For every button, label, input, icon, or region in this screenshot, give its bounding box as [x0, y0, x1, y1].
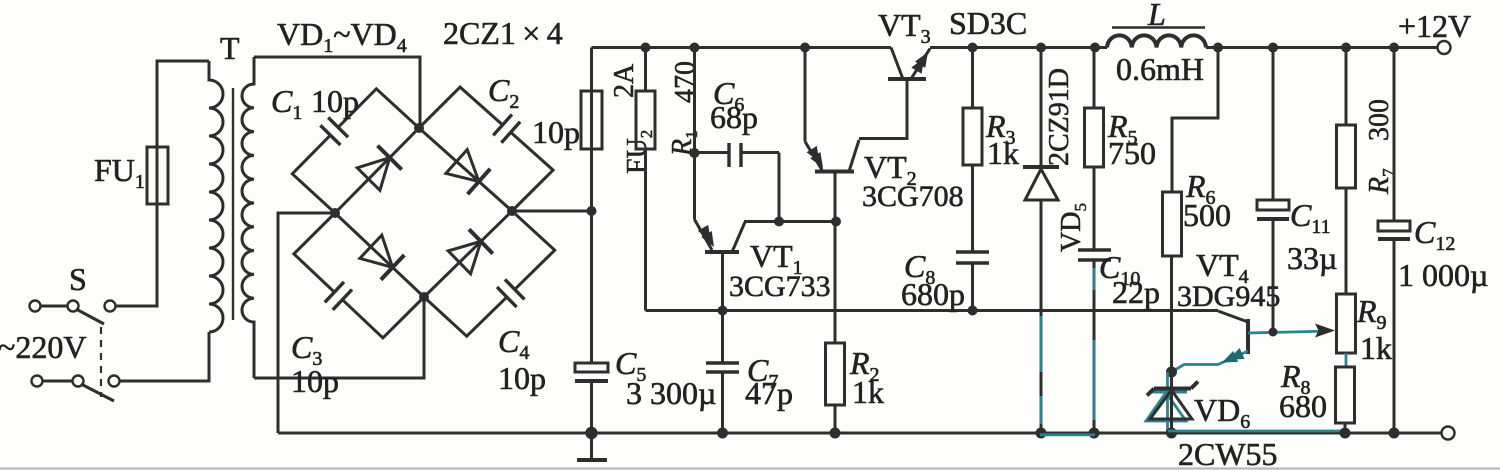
transformer T secondary winding	[242, 57, 254, 378]
capacitor C10	[1078, 250, 1111, 433]
node C6 right junction	[774, 217, 784, 227]
svg-text:33µ: 33µ	[1287, 240, 1337, 276]
svg-text:1k: 1k	[852, 374, 884, 410]
capacitor C8	[956, 252, 989, 311]
wire teal overtrace bottom	[1168, 430, 1346, 433]
svg-text:1 000µ: 1 000µ	[1398, 257, 1488, 293]
wire secondary bottom to bridge bottom node	[254, 297, 424, 378]
top rail wire segment B	[930, 46, 1107, 49]
node VT1 emitter top	[690, 43, 700, 53]
transistor VT4	[1172, 311, 1336, 372]
svg-text:+12V: +12V	[1398, 8, 1471, 44]
output terminal bottom	[1442, 427, 1455, 440]
diode VD4	[448, 229, 493, 273]
svg-text:3CG733: 3CG733	[729, 270, 831, 303]
svg-text:10p: 10p	[532, 114, 580, 150]
potentiometer R9	[1337, 294, 1356, 367]
wire L right down to R6	[1172, 48, 1218, 193]
diode VD1	[357, 146, 402, 191]
node C7 ground	[717, 428, 728, 439]
capacitor C11 (electrolytic)	[1257, 48, 1289, 333]
svg-text:47p: 47p	[745, 375, 793, 411]
svg-text:22p: 22p	[1112, 274, 1160, 310]
wire bridge edge left-top	[335, 128, 419, 213]
transformer T core	[232, 88, 234, 320]
wire VT2 base to R2	[834, 222, 837, 344]
diode VD2	[446, 150, 490, 195]
diode VD6 zener (teal shadow)	[1146, 372, 1187, 433]
svg-text:VD1~VD4: VD1~VD4	[277, 16, 407, 57]
bridge top node	[414, 123, 424, 133]
svg-text:680p: 680p	[901, 276, 965, 312]
wire bridge edge top-right	[419, 128, 512, 211]
resistor R2	[826, 343, 845, 433]
capacitor C3	[294, 213, 424, 338]
node L right	[1213, 43, 1223, 53]
switch S blade bottom	[81, 384, 114, 401]
node C11 top	[1268, 43, 1278, 53]
switch S pole2 fixed contact	[109, 376, 120, 387]
input terminal bottom	[32, 376, 43, 387]
wire secondary top to bridge top node	[254, 57, 420, 128]
svg-text:2CZ1 × 4: 2CZ1 × 4	[443, 15, 563, 51]
output terminal +12V	[1438, 41, 1451, 54]
wire FU1 to transformer primary top	[157, 61, 209, 147]
resistor R6	[1163, 192, 1182, 372]
svg-text:2CZ91D: 2CZ91D	[1044, 68, 1075, 166]
transformer T primary winding	[209, 61, 223, 332]
resistor R1	[636, 48, 655, 311]
resistor R7	[1337, 48, 1356, 295]
node junction C5 ground	[585, 427, 597, 439]
node VT2 emitter top	[800, 43, 810, 53]
svg-text:470: 470	[670, 61, 701, 103]
svg-text:SD3C: SD3C	[949, 5, 1027, 41]
svg-text:1k: 1k	[1360, 330, 1392, 366]
node VD6 ground	[1166, 428, 1177, 439]
switch S mechanical link (dashed)	[100, 327, 102, 397]
svg-text:68p: 68p	[710, 99, 758, 135]
wire bridge edge bottom-right	[424, 211, 512, 297]
svg-text:T: T	[220, 30, 240, 66]
capacitor C2	[419, 87, 553, 211]
fuse FU2	[581, 91, 602, 149]
node R7 top	[1341, 43, 1351, 53]
wire teal accent C10 lower lead	[1093, 268, 1096, 290]
svg-text:10p: 10p	[311, 83, 359, 119]
transistor VT1 emitter wire	[693, 48, 696, 220]
bridge bottom node	[419, 292, 429, 302]
switch S blade top	[76, 309, 104, 324]
svg-text:3 300µ: 3 300µ	[626, 375, 716, 411]
node R1 top	[641, 43, 651, 53]
diode VD6 zener	[1147, 372, 1198, 433]
transistor VT1	[695, 220, 746, 311]
fuse FU1	[147, 147, 168, 204]
diode VD3	[360, 235, 405, 280]
capacitor C7	[706, 311, 739, 434]
svg-text:10p: 10p	[291, 363, 339, 399]
bottom rail wire	[278, 432, 1442, 435]
capacitor C12 (electrolytic)	[1378, 48, 1410, 434]
node C8 bottom junction	[968, 306, 978, 316]
transistor VT3	[888, 48, 930, 80]
wire base rail y310	[646, 309, 1219, 312]
transistor VT2 emitter wire	[804, 48, 807, 142]
svg-text:750: 750	[1108, 135, 1156, 171]
wire bridge edge left-bottom	[335, 213, 424, 297]
svg-text:3CG708: 3CG708	[862, 180, 964, 213]
node VT4 emitter / VD6 top	[1166, 367, 1177, 378]
svg-text:~220V: ~220V	[0, 329, 86, 365]
switch S pole1 fixed contact	[105, 301, 116, 312]
fuse FU2 lead through	[590, 48, 593, 212]
wire input to pivot top	[41, 305, 68, 308]
bridge right node	[507, 206, 517, 216]
input terminal top	[30, 301, 41, 312]
capacitor C1	[292, 89, 419, 213]
node junction at FU2 bottom / C5 top	[587, 206, 597, 216]
wire teal accent bottom rail left	[1040, 433, 1095, 436]
node C12 ground	[1389, 428, 1400, 439]
resistor R3	[963, 48, 982, 253]
resistor R8	[1336, 367, 1355, 433]
svg-text:0.6mH: 0.6mH	[1116, 51, 1204, 87]
diode VD5	[1023, 48, 1059, 434]
resistor R5	[1085, 48, 1104, 251]
svg-text:500: 500	[1183, 197, 1231, 233]
svg-text:S: S	[69, 261, 87, 297]
wire bridge left node to ground rail	[278, 213, 335, 433]
wire teal accent VD5 lower lead	[1040, 316, 1043, 372]
top rail wire segment A	[592, 46, 892, 49]
wire input to pivot bottom	[43, 380, 73, 383]
switch S pole2 pivot	[73, 376, 84, 387]
svg-text:10p: 10p	[498, 360, 546, 396]
node C6 left junction	[690, 148, 700, 158]
capacitor C5 (electrolytic)	[575, 211, 608, 433]
switch S pole1 pivot	[68, 301, 79, 312]
node R2 ground	[830, 428, 841, 439]
top rail wire segment C	[1206, 46, 1438, 49]
svg-text:300: 300	[1364, 99, 1395, 141]
node C12 top	[1389, 43, 1399, 53]
node VT1 collector / VT2 base junction	[831, 217, 841, 227]
svg-text:1k: 1k	[987, 135, 1019, 171]
transistor VT2	[805, 140, 859, 222]
svg-text:680: 680	[1279, 388, 1327, 424]
ground	[577, 433, 607, 460]
svg-text:2CW55: 2CW55	[1178, 436, 1278, 470]
capacitor C4	[424, 211, 555, 336]
label L underline	[1112, 26, 1205, 28]
wire switch bottom to transformer primary bottom	[120, 332, 210, 381]
inductor L	[1107, 35, 1206, 47]
wire switch top to FU1	[116, 204, 158, 306]
capacitor C6	[695, 143, 780, 222]
wire bridge right node to FU2 bottom junction	[512, 210, 592, 213]
node C11 bottom junction	[1269, 328, 1278, 337]
scan edge line bottom	[0, 467, 1500, 469]
node R5 top / L left	[1090, 43, 1100, 53]
node C10 ground	[1089, 428, 1100, 439]
bridge left node	[330, 208, 340, 218]
node R3 top	[968, 43, 978, 53]
svg-text:3DG945: 3DG945	[1177, 280, 1280, 313]
node R8 ground	[1340, 428, 1351, 439]
wire VT1 collector to VT2 base	[744, 220, 836, 223]
wire VT2 collector to VT3 base	[859, 79, 907, 139]
node VD5 ground	[1036, 428, 1047, 439]
node VT1 base junction	[718, 306, 728, 316]
node VD5 top	[1036, 43, 1046, 53]
